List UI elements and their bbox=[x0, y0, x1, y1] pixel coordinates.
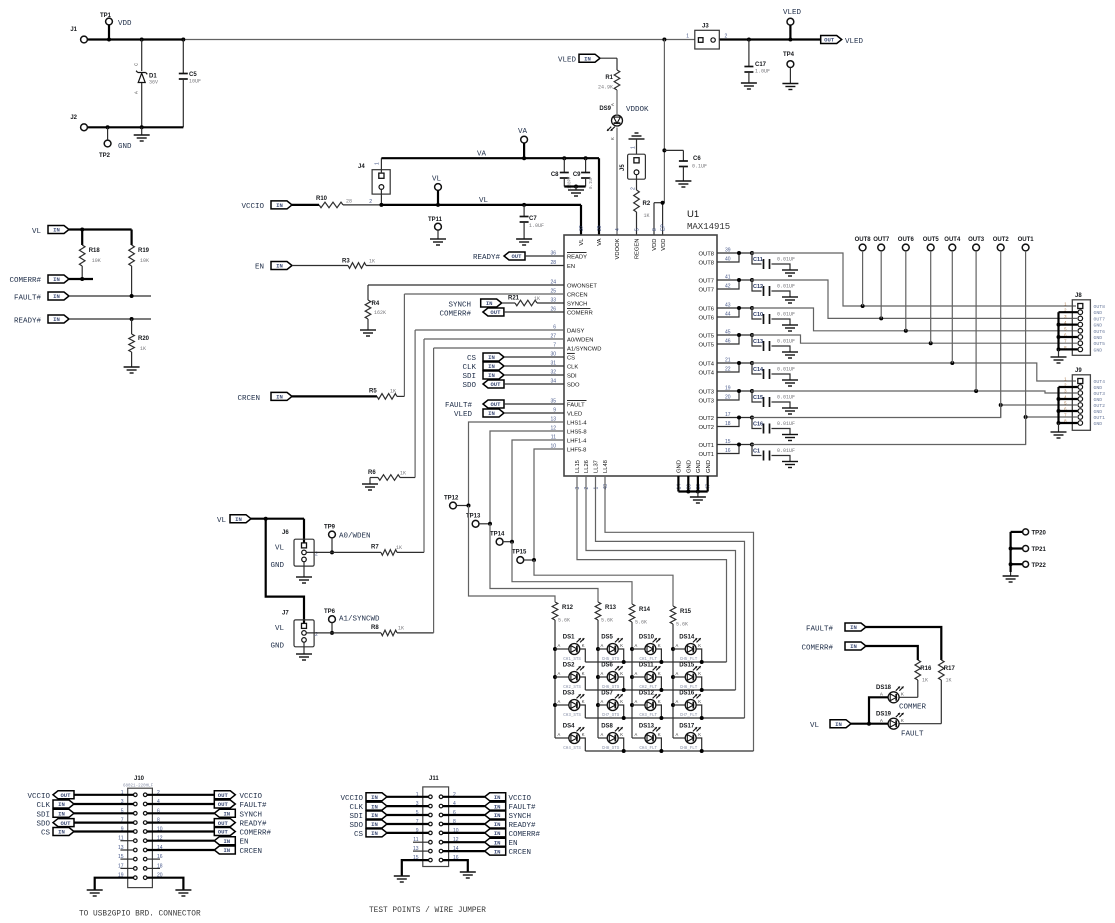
svg-text:DS7: DS7 bbox=[601, 691, 613, 697]
tag CS J10 left bbox=[41, 828, 134, 838]
svg-text:OUT: OUT bbox=[490, 401, 501, 408]
svg-text:DS5: DS5 bbox=[601, 635, 613, 641]
svg-text:R17: R17 bbox=[944, 666, 956, 672]
svg-text:GND: GND bbox=[696, 460, 702, 473]
svg-text:K: K bbox=[658, 699, 661, 704]
svg-text:U1: U1 bbox=[687, 209, 699, 220]
wire LL15 bbox=[577, 476, 727, 662]
svg-text:TP4: TP4 bbox=[783, 52, 795, 58]
svg-text:0.01UF: 0.01UF bbox=[777, 421, 795, 427]
svg-text:1K: 1K bbox=[396, 545, 402, 551]
svg-text:COMMER: COMMER bbox=[899, 704, 927, 712]
capacitor C11 0.01UF bbox=[717, 251, 798, 276]
svg-text:DS12: DS12 bbox=[639, 691, 655, 697]
svg-text:R7: R7 bbox=[371, 545, 379, 551]
svg-text:EN: EN bbox=[509, 840, 518, 848]
svg-text:C8: C8 bbox=[551, 172, 559, 178]
svg-text:OUT6: OUT6 bbox=[699, 316, 714, 322]
ground under C6 bbox=[675, 180, 691, 182]
svg-text:IN: IN bbox=[488, 354, 495, 361]
capacitor C10 0.01UF bbox=[717, 306, 798, 331]
svg-text:1.0UF: 1.0UF bbox=[755, 69, 770, 75]
svg-text:SDO: SDO bbox=[349, 822, 363, 830]
svg-text:K: K bbox=[582, 671, 585, 676]
capacitor C12 0.01UF bbox=[717, 278, 798, 303]
resistor R8 1K bbox=[306, 348, 564, 636]
svg-text:A: A bbox=[880, 692, 883, 697]
test point OUT5 bbox=[923, 237, 940, 343]
tag READY# J11 right bbox=[443, 820, 536, 830]
capacitor C16 0.01UF bbox=[717, 416, 798, 441]
svg-text:CRCEN: CRCEN bbox=[509, 849, 532, 857]
svg-text:IN: IN bbox=[58, 801, 65, 808]
svg-text:VLED: VLED bbox=[558, 57, 577, 65]
svg-text:LL37: LL37 bbox=[594, 460, 600, 473]
svg-text:A: A bbox=[558, 671, 561, 676]
test point TP2 bbox=[99, 127, 132, 159]
svg-text:1K: 1K bbox=[398, 626, 404, 632]
ground J11 pin15 bbox=[394, 860, 429, 882]
svg-text:IN: IN bbox=[835, 721, 842, 728]
svg-text:OUT: OUT bbox=[511, 253, 522, 260]
svg-text:IN: IN bbox=[494, 812, 501, 819]
svg-text:K: K bbox=[582, 643, 585, 648]
svg-text:1K: 1K bbox=[644, 213, 650, 219]
svg-text:DS10: DS10 bbox=[639, 635, 655, 641]
svg-text:0.01UF: 0.01UF bbox=[777, 284, 795, 290]
tag VL in right bbox=[810, 697, 888, 730]
wire LHF5-8 bbox=[534, 449, 564, 560]
svg-text:IN: IN bbox=[494, 848, 501, 855]
svg-text:TO USB2GPIO BRD. CONNECTOR: TO USB2GPIO BRD. CONNECTOR bbox=[79, 911, 201, 919]
svg-text:R4: R4 bbox=[372, 301, 380, 307]
svg-text:OUT1: OUT1 bbox=[1018, 237, 1035, 243]
svg-text:GND: GND bbox=[118, 143, 132, 151]
svg-text:5.6K: 5.6K bbox=[635, 620, 647, 626]
LED DS12 bbox=[632, 691, 661, 719]
svg-text:FAULT#: FAULT# bbox=[445, 402, 473, 410]
svg-text:CH1_STS: CH1_STS bbox=[563, 658, 581, 662]
ground under U1 bbox=[690, 496, 706, 498]
svg-text:J7: J7 bbox=[282, 611, 289, 617]
tag CS J11 left bbox=[354, 829, 429, 839]
svg-text:VL: VL bbox=[432, 176, 442, 184]
test point TP15 bbox=[512, 550, 536, 564]
tag VCCIO J10 right bbox=[147, 791, 263, 801]
svg-text:IN: IN bbox=[371, 803, 378, 810]
svg-text:R21: R21 bbox=[508, 296, 520, 302]
capacitor C9 0.1UF bbox=[573, 158, 594, 189]
test point TP9 bbox=[324, 525, 371, 555]
wire LL26 bbox=[586, 476, 736, 690]
svg-text:OUT5: OUT5 bbox=[699, 343, 714, 349]
LED DS17 bbox=[673, 724, 702, 752]
svg-text:DS4: DS4 bbox=[563, 724, 575, 730]
capacitor C13 0.01UF bbox=[717, 333, 798, 358]
wire anode column 3 bbox=[630, 622, 634, 738]
svg-text:TP11: TP11 bbox=[428, 217, 443, 223]
svg-text:IN: IN bbox=[53, 293, 60, 300]
wire LL48 bbox=[605, 476, 754, 751]
tag COMERR# in right bbox=[801, 642, 917, 660]
svg-text:IN: IN bbox=[235, 516, 242, 523]
ground under R20 bbox=[124, 366, 140, 368]
svg-text:K: K bbox=[658, 732, 661, 737]
svg-text:DS18: DS18 bbox=[876, 685, 892, 691]
svg-text:CS: CS bbox=[567, 356, 575, 362]
LED DS3 bbox=[555, 691, 585, 719]
svg-text:0.01UF: 0.01UF bbox=[777, 257, 795, 263]
svg-text:TP20: TP20 bbox=[1032, 531, 1047, 537]
svg-text:CRCEN: CRCEN bbox=[237, 395, 260, 403]
wire VDD drop bbox=[654, 40, 666, 236]
test point VLED top bbox=[783, 9, 802, 40]
connector J10 bbox=[118, 776, 163, 888]
svg-text:IN: IN bbox=[488, 410, 495, 417]
svg-text:SYNCH: SYNCH bbox=[509, 813, 532, 821]
svg-text:IN: IN bbox=[486, 300, 493, 307]
svg-text:A0/WDEN: A0/WDEN bbox=[339, 533, 371, 541]
svg-text:C12: C12 bbox=[753, 284, 763, 290]
svg-text:J4: J4 bbox=[358, 164, 365, 170]
svg-text:VLED: VLED bbox=[845, 38, 864, 46]
tag SDI J11 left bbox=[349, 811, 428, 821]
svg-text:R3: R3 bbox=[342, 259, 350, 265]
svg-text:OUT1: OUT1 bbox=[699, 452, 714, 458]
svg-text:J11: J11 bbox=[429, 776, 439, 782]
svg-text:LL48: LL48 bbox=[603, 460, 609, 473]
svg-text:SDO: SDO bbox=[567, 383, 580, 389]
svg-text:OWONSET: OWONSET bbox=[567, 284, 597, 290]
svg-text:1K: 1K bbox=[390, 389, 396, 395]
tag CS in bbox=[467, 353, 564, 363]
test point TP4 bbox=[782, 52, 798, 90]
test point OUT6 bbox=[898, 237, 915, 331]
svg-text:GND: GND bbox=[687, 460, 693, 473]
LED DS7 bbox=[598, 691, 624, 719]
tag CRCEN J11 right bbox=[443, 847, 531, 857]
svg-text:R8: R8 bbox=[371, 625, 379, 631]
svg-text:A1/SYNCWD: A1/SYNCWD bbox=[567, 347, 601, 353]
svg-text:OUT5: OUT5 bbox=[1094, 341, 1106, 347]
svg-text:IN: IN bbox=[58, 829, 65, 836]
svg-text:1: 1 bbox=[631, 146, 637, 149]
svg-text:K: K bbox=[658, 643, 661, 648]
wire cathode row 4 bbox=[585, 749, 753, 753]
svg-text:CH2_STS: CH2_STS bbox=[563, 686, 581, 690]
wire TP13 to R13 bbox=[490, 524, 598, 602]
svg-text:VA: VA bbox=[597, 238, 603, 245]
svg-text:OUT7: OUT7 bbox=[873, 237, 890, 243]
svg-text:1: 1 bbox=[686, 34, 689, 40]
LED DS10 bbox=[632, 635, 661, 663]
svg-text:K: K bbox=[620, 732, 623, 737]
tag FAULT# in left bbox=[14, 292, 151, 303]
wire VL pullup bbox=[69, 228, 132, 232]
resistor R15 5.6K bbox=[670, 606, 691, 628]
svg-text:8: 8 bbox=[652, 228, 658, 231]
wire anode column 2 bbox=[596, 620, 600, 738]
svg-text:OUT8: OUT8 bbox=[1094, 304, 1106, 310]
LED DS15 bbox=[673, 663, 702, 691]
svg-text:1.0UF: 1.0UF bbox=[529, 223, 544, 229]
svg-text:C6: C6 bbox=[693, 156, 701, 162]
svg-text:K: K bbox=[582, 699, 585, 704]
svg-text:REGEN: REGEN bbox=[635, 239, 641, 260]
svg-text:2: 2 bbox=[584, 487, 590, 490]
svg-text:VL: VL bbox=[810, 722, 820, 730]
tag SDI J10 left bbox=[36, 809, 133, 819]
svg-text:A: A bbox=[610, 103, 615, 106]
ground J11 pin16 bbox=[443, 860, 476, 878]
svg-text:READY: READY bbox=[567, 255, 587, 261]
svg-text:48: 48 bbox=[603, 484, 609, 490]
connector J5 bbox=[620, 146, 645, 190]
LED DS11 bbox=[632, 663, 661, 691]
svg-text:VA: VA bbox=[477, 151, 487, 159]
resistor R16 1K bbox=[899, 660, 932, 697]
LED DS14 bbox=[673, 635, 702, 663]
tag FAULT# J11 right bbox=[443, 802, 536, 812]
svg-text:VL: VL bbox=[275, 625, 285, 633]
capacitor C17 1.0UF bbox=[744, 40, 770, 84]
svg-text:GND: GND bbox=[706, 460, 712, 473]
tag VLED in bbox=[454, 409, 564, 419]
wire net OUT2 bbox=[751, 403, 1077, 418]
svg-text:J9: J9 bbox=[1075, 368, 1082, 374]
tag READY# J10 right bbox=[147, 819, 267, 829]
tag FAULT# J10 right bbox=[147, 800, 267, 810]
svg-text:IN: IN bbox=[850, 624, 857, 631]
ground top-left bbox=[134, 127, 150, 141]
tag CRCEN J10 right bbox=[147, 846, 262, 856]
LED DS19 FAULT bbox=[876, 712, 924, 739]
svg-text:VL: VL bbox=[32, 228, 42, 236]
wire J10 left stubs bbox=[120, 841, 160, 869]
svg-text:EN: EN bbox=[240, 839, 249, 847]
svg-text:C16: C16 bbox=[753, 422, 763, 428]
svg-text:OUT7: OUT7 bbox=[699, 288, 714, 294]
svg-text:5.6K: 5.6K bbox=[676, 622, 688, 628]
resistor R5 1K / CRCEN bbox=[237, 294, 564, 403]
svg-text:IN: IN bbox=[58, 811, 65, 818]
svg-text:A: A bbox=[134, 91, 139, 94]
svg-text:IN: IN bbox=[371, 821, 378, 828]
svg-text:A: A bbox=[635, 643, 638, 648]
connector J6 bbox=[270, 530, 318, 570]
svg-text:VA: VA bbox=[518, 128, 528, 136]
wire net OUT6 bbox=[751, 308, 1077, 333]
svg-text:SDO: SDO bbox=[462, 382, 476, 390]
svg-text:A: A bbox=[676, 699, 679, 704]
wire net OUT1 bbox=[751, 415, 1077, 445]
test point TP13 bbox=[466, 514, 492, 528]
node VDD top rail bbox=[88, 38, 821, 42]
svg-text:VCCIO: VCCIO bbox=[240, 793, 263, 801]
ground under C17 bbox=[741, 82, 757, 84]
svg-text:SYNCH: SYNCH bbox=[567, 302, 587, 308]
svg-text:A: A bbox=[635, 671, 638, 676]
connector J8 bbox=[1057, 293, 1106, 357]
svg-text:36V: 36V bbox=[149, 80, 158, 86]
svg-text:A: A bbox=[558, 699, 561, 704]
svg-text:1K: 1K bbox=[922, 678, 928, 684]
svg-text:29: 29 bbox=[597, 225, 603, 231]
svg-text:K: K bbox=[698, 732, 701, 737]
svg-text:MAX14915: MAX14915 bbox=[687, 222, 730, 232]
svg-text:24.9K: 24.9K bbox=[598, 85, 613, 91]
svg-text:A: A bbox=[676, 643, 679, 648]
svg-text:TP2: TP2 bbox=[99, 153, 111, 159]
wire VL rail bbox=[379, 197, 581, 235]
svg-text:FAULT: FAULT bbox=[901, 731, 924, 739]
svg-text:2: 2 bbox=[631, 187, 637, 190]
LED DS5 bbox=[598, 635, 624, 663]
svg-text:1: 1 bbox=[375, 162, 381, 165]
svg-text:1K: 1K bbox=[140, 346, 146, 352]
wire DS9 to VDOOK pin bbox=[616, 128, 618, 236]
svg-text:OUT5: OUT5 bbox=[699, 334, 714, 340]
svg-text:EN: EN bbox=[567, 264, 575, 270]
svg-text:A1/SYNCWD: A1/SYNCWD bbox=[339, 616, 380, 624]
svg-text:VCCIO: VCCIO bbox=[27, 793, 50, 801]
svg-text:OUT3: OUT3 bbox=[968, 237, 985, 243]
svg-text:A: A bbox=[558, 732, 561, 737]
svg-text:LHF1-4: LHF1-4 bbox=[567, 439, 587, 445]
svg-text:OUT8: OUT8 bbox=[699, 252, 714, 258]
svg-text:C14: C14 bbox=[753, 367, 764, 373]
wire TP15 to R15 bbox=[534, 560, 673, 606]
svg-text:GND: GND bbox=[1094, 409, 1103, 415]
svg-text:DS3: DS3 bbox=[563, 691, 575, 697]
svg-text:IN: IN bbox=[53, 316, 60, 323]
resistor R3 1K bbox=[255, 259, 564, 272]
svg-text:J8: J8 bbox=[1075, 293, 1082, 299]
tag VCCIO J10 left bbox=[27, 791, 133, 801]
svg-text:OUT: OUT bbox=[490, 381, 501, 388]
ground under J8 bbox=[1051, 356, 1067, 358]
svg-text:A: A bbox=[676, 671, 679, 676]
svg-text:VDD: VDD bbox=[661, 239, 667, 251]
svg-text:IN: IN bbox=[850, 643, 857, 650]
svg-text:J2: J2 bbox=[70, 115, 77, 121]
svg-text:0.01UF: 0.01UF bbox=[777, 367, 795, 373]
svg-text:LHS5-8: LHS5-8 bbox=[567, 430, 587, 436]
wire TP14 to R14 bbox=[512, 542, 632, 604]
svg-text:IN: IN bbox=[276, 394, 283, 401]
svg-text:LHS1-4: LHS1-4 bbox=[567, 421, 587, 427]
svg-text:OUT5: OUT5 bbox=[923, 237, 940, 243]
svg-text:OUT: OUT bbox=[218, 792, 229, 799]
svg-text:DS17: DS17 bbox=[679, 724, 695, 730]
svg-text:C11: C11 bbox=[753, 257, 763, 263]
svg-text:TP21: TP21 bbox=[1032, 547, 1047, 553]
wire anode column 4 bbox=[671, 624, 675, 738]
svg-text:GND: GND bbox=[1094, 323, 1103, 329]
svg-text:A: A bbox=[558, 643, 561, 648]
test point OUT4 bbox=[944, 237, 961, 363]
tag CLK J11 left bbox=[349, 802, 428, 812]
svg-text:IN: IN bbox=[371, 812, 378, 819]
resistor R4 162K bbox=[360, 285, 564, 336]
svg-text:FAULT#: FAULT# bbox=[14, 295, 42, 303]
capacitor C8 100PF bbox=[551, 158, 573, 189]
svg-text:CH4_STS: CH4_STS bbox=[563, 747, 581, 751]
svg-text:VDOOK: VDOOK bbox=[615, 238, 621, 259]
svg-text:0.1UF: 0.1UF bbox=[692, 164, 707, 170]
svg-text:OUT4: OUT4 bbox=[1094, 379, 1106, 385]
svg-text:TP15: TP15 bbox=[512, 550, 527, 556]
svg-text:C15: C15 bbox=[753, 395, 763, 401]
svg-text:K: K bbox=[610, 137, 615, 140]
resistor R7 1K bbox=[306, 339, 564, 555]
svg-text:IN: IN bbox=[371, 830, 378, 837]
svg-text:37: 37 bbox=[579, 225, 585, 231]
svg-text:10UF: 10UF bbox=[189, 79, 201, 85]
tag VL in left bbox=[32, 226, 69, 237]
svg-text:FAULT: FAULT bbox=[567, 403, 585, 409]
svg-text:5: 5 bbox=[635, 228, 641, 231]
connector J3 bbox=[686, 24, 727, 50]
svg-text:3: 3 bbox=[575, 487, 581, 490]
test point VL bbox=[432, 176, 442, 205]
svg-text:EN: EN bbox=[255, 264, 264, 272]
svg-text:4: 4 bbox=[615, 228, 621, 231]
capacitor C15 0.01UF bbox=[717, 389, 798, 414]
svg-text:CLK: CLK bbox=[349, 804, 363, 812]
LED DS13 bbox=[632, 724, 661, 752]
svg-text:J6: J6 bbox=[282, 530, 289, 536]
resistor R10 28 bbox=[292, 196, 381, 208]
svg-text:DS13: DS13 bbox=[639, 724, 655, 730]
svg-text:OUT3: OUT3 bbox=[699, 399, 714, 405]
resistor R19 10K bbox=[129, 230, 150, 297]
svg-text:A0/WDEN: A0/WDEN bbox=[567, 338, 593, 344]
svg-text:OUT6: OUT6 bbox=[898, 237, 915, 243]
wire net OUT3 bbox=[751, 389, 1077, 393]
svg-text:VLED: VLED bbox=[567, 412, 582, 418]
svg-text:READY#: READY# bbox=[473, 254, 501, 262]
test point TP1 bbox=[100, 13, 132, 40]
svg-text:DS16: DS16 bbox=[679, 691, 695, 697]
svg-text:OUT2: OUT2 bbox=[1094, 403, 1106, 409]
resistor R13 5.6K bbox=[595, 602, 616, 624]
tag SDO out bbox=[462, 380, 564, 390]
svg-text:IN: IN bbox=[488, 372, 495, 379]
svg-text:GND: GND bbox=[1094, 335, 1103, 341]
svg-text:DS15: DS15 bbox=[679, 663, 695, 669]
resistor R1 24.9K bbox=[598, 58, 620, 114]
ground under J7 bbox=[296, 642, 312, 660]
svg-text:SYNCH: SYNCH bbox=[448, 302, 471, 310]
svg-text:A: A bbox=[635, 699, 638, 704]
svg-text:K: K bbox=[901, 692, 904, 697]
svg-text:5.6K: 5.6K bbox=[601, 618, 613, 624]
svg-text:GND: GND bbox=[1094, 397, 1103, 403]
capacitor C5 10UF bbox=[179, 40, 201, 128]
svg-text:R6: R6 bbox=[368, 470, 376, 476]
svg-text:C5: C5 bbox=[189, 72, 197, 78]
wire DAISY to R6 bbox=[415, 330, 564, 478]
wire LHS5-8 bbox=[490, 431, 564, 524]
test point VA bbox=[518, 128, 528, 158]
svg-text:GND: GND bbox=[270, 643, 284, 651]
svg-text:EP: EP bbox=[661, 224, 667, 231]
svg-text:DS2: DS2 bbox=[563, 663, 575, 669]
svg-text:R18: R18 bbox=[89, 248, 101, 254]
svg-text:IN: IN bbox=[584, 55, 591, 62]
svg-text:VCCIO: VCCIO bbox=[340, 795, 363, 803]
